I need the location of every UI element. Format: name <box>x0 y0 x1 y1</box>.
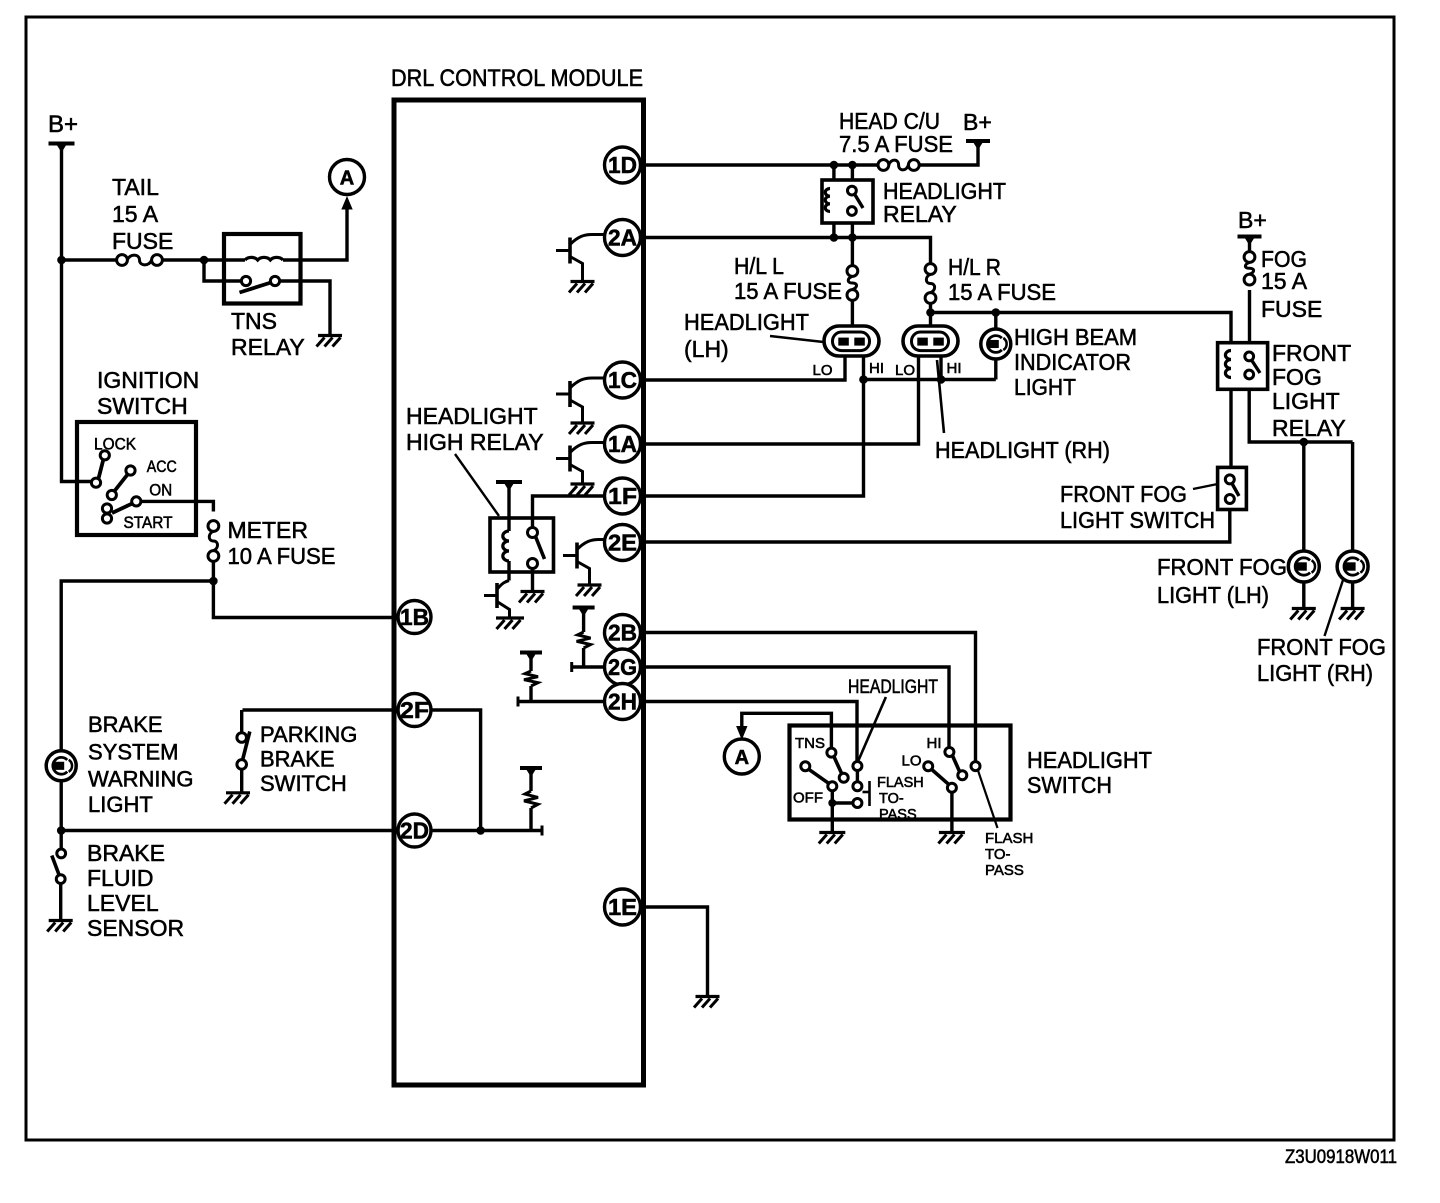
svg-text:FUSE: FUSE <box>1261 296 1322 322</box>
svg-text:TNS: TNS <box>795 735 825 752</box>
svg-text:2D: 2D <box>400 818 429 844</box>
svg-text:FLASH: FLASH <box>985 830 1033 847</box>
svg-text:TAIL: TAIL <box>112 174 159 200</box>
svg-text:LIGHT SWITCH: LIGHT SWITCH <box>1060 507 1215 533</box>
svg-text:HEADLIGHT: HEADLIGHT <box>848 677 938 698</box>
svg-text:PASS: PASS <box>985 862 1024 879</box>
svg-text:SWITCH: SWITCH <box>260 771 347 796</box>
svg-text:HI: HI <box>869 360 884 377</box>
svg-text:IGNITION: IGNITION <box>97 367 199 393</box>
svg-text:2F: 2F <box>400 697 429 723</box>
svg-text:SWITCH: SWITCH <box>97 393 188 419</box>
svg-text:H/L R: H/L R <box>948 254 1001 280</box>
svg-text:15 A: 15 A <box>1261 268 1308 294</box>
svg-text:BRAKE: BRAKE <box>260 747 335 772</box>
svg-text:RELAY: RELAY <box>1272 415 1346 441</box>
svg-text:2A: 2A <box>608 225 637 251</box>
svg-text:Z3U0918W011: Z3U0918W011 <box>1285 1147 1397 1168</box>
svg-text:2E: 2E <box>608 530 637 556</box>
svg-text:7.5 A FUSE: 7.5 A FUSE <box>839 131 953 157</box>
svg-text:FLUID: FLUID <box>87 865 153 891</box>
svg-text:FOG: FOG <box>1272 364 1322 390</box>
svg-text:1B: 1B <box>400 604 429 630</box>
svg-text:LO: LO <box>895 362 915 379</box>
svg-text:A: A <box>340 168 354 190</box>
svg-text:BRAKE: BRAKE <box>87 840 165 866</box>
svg-text:RELAY: RELAY <box>231 334 305 360</box>
svg-text:PARKING: PARKING <box>260 722 357 747</box>
svg-text:A: A <box>735 747 749 769</box>
svg-text:LO: LO <box>813 362 833 379</box>
svg-text:2G: 2G <box>608 654 637 680</box>
svg-text:PASS: PASS <box>879 807 917 823</box>
svg-text:METER: METER <box>228 517 309 543</box>
svg-text:HI: HI <box>947 360 962 377</box>
svg-text:INDICATOR: INDICATOR <box>1014 349 1131 375</box>
svg-text:HEADLIGHT: HEADLIGHT <box>1027 747 1152 773</box>
svg-text:START: START <box>124 513 173 532</box>
svg-text:B+: B+ <box>963 109 992 135</box>
svg-text:LIGHT (RH): LIGHT (RH) <box>1257 660 1373 686</box>
svg-text:(LH): (LH) <box>684 336 729 362</box>
svg-text:10 A FUSE: 10 A FUSE <box>228 543 336 569</box>
svg-text:TO-: TO- <box>985 846 1011 863</box>
svg-text:LIGHT: LIGHT <box>1272 388 1340 414</box>
svg-text:LIGHT: LIGHT <box>88 792 153 817</box>
svg-text:SWITCH: SWITCH <box>1027 772 1112 798</box>
svg-text:ACC: ACC <box>147 457 177 476</box>
svg-text:LIGHT (LH): LIGHT (LH) <box>1157 582 1269 608</box>
svg-text:2B: 2B <box>608 620 637 646</box>
svg-text:LEVEL: LEVEL <box>87 890 159 916</box>
svg-text:HIGH RELAY: HIGH RELAY <box>406 429 544 455</box>
svg-text:HEADLIGHT (RH): HEADLIGHT (RH) <box>935 437 1110 463</box>
svg-text:LO: LO <box>902 753 922 770</box>
svg-text:HIGH BEAM: HIGH BEAM <box>1014 324 1137 350</box>
svg-text:B+: B+ <box>1238 207 1267 233</box>
svg-text:LOCK: LOCK <box>94 435 137 454</box>
svg-text:FUSE: FUSE <box>112 228 173 254</box>
svg-text:2H: 2H <box>608 689 637 715</box>
svg-text:1D: 1D <box>608 152 637 178</box>
svg-text:OFF: OFF <box>793 790 823 807</box>
svg-text:H/L L: H/L L <box>734 253 784 279</box>
svg-text:HEADLIGHT: HEADLIGHT <box>684 309 809 335</box>
svg-text:15 A FUSE: 15 A FUSE <box>734 278 842 304</box>
svg-text:SENSOR: SENSOR <box>87 915 184 941</box>
svg-text:WARNING: WARNING <box>88 767 194 792</box>
svg-text:1E: 1E <box>608 894 637 920</box>
svg-text:HI: HI <box>927 735 942 752</box>
svg-text:1A: 1A <box>608 431 637 457</box>
svg-text:FRONT FOG: FRONT FOG <box>1157 554 1287 580</box>
svg-text:ON: ON <box>149 481 172 500</box>
svg-text:LIGHT: LIGHT <box>1014 374 1076 400</box>
svg-text:FRONT: FRONT <box>1272 340 1351 366</box>
svg-text:HEADLIGHT: HEADLIGHT <box>406 403 538 429</box>
svg-text:TO-: TO- <box>879 791 904 807</box>
svg-text:SYSTEM: SYSTEM <box>88 740 178 765</box>
svg-text:FLASH: FLASH <box>877 775 924 791</box>
svg-text:1C: 1C <box>608 367 637 393</box>
svg-text:BRAKE: BRAKE <box>88 712 163 737</box>
svg-text:15 A FUSE: 15 A FUSE <box>948 279 1056 305</box>
svg-text:TNS: TNS <box>231 308 277 334</box>
svg-text:FRONT FOG: FRONT FOG <box>1060 481 1187 507</box>
svg-text:FRONT FOG: FRONT FOG <box>1257 634 1386 660</box>
svg-text:B+: B+ <box>48 111 78 138</box>
svg-text:15 A: 15 A <box>112 201 159 227</box>
svg-text:RELAY: RELAY <box>883 201 957 227</box>
svg-text:1F: 1F <box>608 483 637 509</box>
svg-text:DRL CONTROL MODULE: DRL CONTROL MODULE <box>391 65 643 92</box>
